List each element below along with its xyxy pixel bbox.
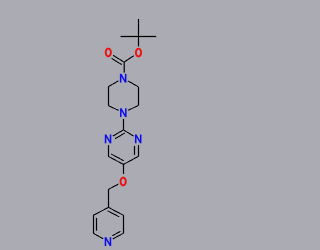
atom label N pyridine (blue) xyxy=(105,237,110,246)
double bond pyridine C4=C3 inner xyxy=(108,211,120,217)
double bond pyrimidine C2=N1 main xyxy=(113,130,124,136)
bond carbonyl C - piperazine N1 xyxy=(123,62,125,73)
bond pyridine C3 - C2 xyxy=(123,215,125,233)
bond pyrimidine N1 - C6 xyxy=(108,145,110,156)
bond Cq - ester O xyxy=(138,37,140,47)
bond pyridine C6 - N1 xyxy=(93,233,103,239)
bond piperazine N1 - C2 xyxy=(108,81,118,87)
atom label O ether (red) xyxy=(121,178,126,186)
bond piperazine C3 - N4 xyxy=(108,106,118,111)
bond piperazine C5 - N4 xyxy=(128,106,138,111)
double bond pyridine C5=C6 inner xyxy=(96,218,98,231)
atom label O carbonyl (red) xyxy=(106,49,111,57)
double bond C=O main line xyxy=(113,55,124,62)
bond C(CH3)3 right methyl xyxy=(139,36,157,38)
bond piperazine C2 - C3 xyxy=(108,87,110,106)
double bond pyridine C4=C3 main xyxy=(109,207,124,215)
bond piperazine N4 - pyrimidine C2 xyxy=(123,119,125,130)
double bond pyrimidine C6=C5 main xyxy=(108,156,123,164)
double bond C=O inner line xyxy=(112,58,122,64)
bond ether O - CH2 xyxy=(108,184,118,189)
bond pyrimidine C2 - N3 xyxy=(123,130,133,136)
atom label N piperazine N4 (blue) xyxy=(121,108,126,117)
atom label O ester (red) xyxy=(136,49,141,57)
bond pyridine C4 - C5 xyxy=(93,207,108,215)
bond piperazine N1 - C6 xyxy=(128,81,138,87)
double bond pyridine C2=N1 inner xyxy=(112,231,120,236)
double bond pyridine C5=C6 main xyxy=(93,215,95,233)
double bond pyrimidine N3=C4 main xyxy=(138,145,140,156)
atom label N pyrimidine N1 (blue) xyxy=(106,135,111,144)
bond piperazine C6 - C5 xyxy=(138,87,140,106)
bond C(CH3)3 top methyl xyxy=(138,19,140,37)
double bond pyrimidine N3=C4 inner xyxy=(134,146,136,155)
bond CH2 - pyridine C4 xyxy=(108,189,110,207)
bond C(CH3)3 left methyl xyxy=(121,36,139,38)
atom label N pyrimidine N3 (blue) xyxy=(136,134,141,143)
bond ester O - carbonyl C xyxy=(124,56,134,63)
atom label N piperazine N1 (blue) xyxy=(121,74,126,83)
bond pyrimidine C5 - ether O xyxy=(123,164,125,174)
double bond pyrimidine C6=C5 inner xyxy=(111,154,123,161)
double bond pyridine C2=N1 main xyxy=(113,233,124,239)
bond pyrimidine C4 - C5 xyxy=(123,156,138,164)
double bond pyrimidine C2=N1 inner xyxy=(115,133,125,139)
